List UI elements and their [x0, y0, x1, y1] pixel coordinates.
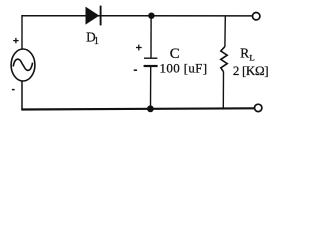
- svg-text:1: 1: [94, 36, 99, 47]
- svg-text:L: L: [249, 53, 254, 63]
- svg-text:100 [uF]: 100 [uF]: [160, 61, 208, 76]
- svg-text:C: C: [170, 46, 180, 62]
- svg-text:2 [KΩ]: 2 [KΩ]: [233, 63, 268, 78]
